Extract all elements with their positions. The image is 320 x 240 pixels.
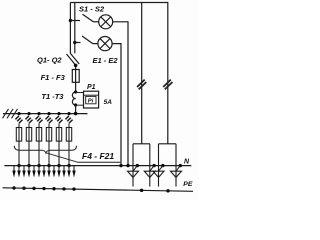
svg-text:E1 - E2: E1 - E2 (93, 56, 119, 65)
svg-text:F4 - F21: F4 - F21 (82, 151, 114, 161)
svg-text:P1: P1 (87, 84, 96, 91)
svg-text:PE: PE (183, 181, 193, 188)
svg-text:Pi: Pi (88, 99, 94, 105)
svg-text:T1 -T3: T1 -T3 (41, 92, 64, 101)
svg-text:F1 - F3: F1 - F3 (41, 73, 66, 82)
svg-text:S1 - S2: S1 - S2 (79, 4, 105, 13)
svg-text:5A: 5A (104, 99, 113, 106)
svg-text:Q1- Q2: Q1- Q2 (37, 55, 62, 64)
